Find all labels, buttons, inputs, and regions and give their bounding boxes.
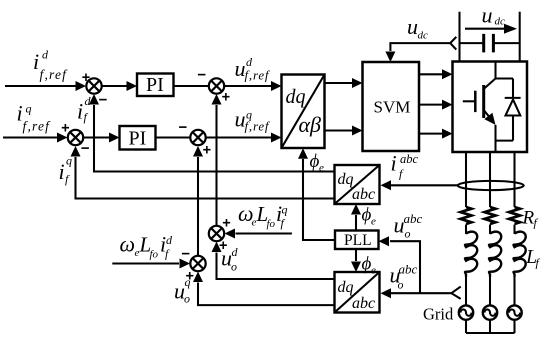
svg-text:f,ref: f,ref [245, 119, 271, 134]
wire SVM to inverter mid [419, 104, 442, 106]
label R_f [522, 208, 539, 230]
svg-text:f: f [281, 216, 286, 230]
label u_dc sense [407, 14, 428, 42]
svg-text:d: d [166, 233, 173, 247]
svg-text:f: f [84, 110, 89, 124]
svg-text:e: e [371, 216, 376, 228]
grid source c [507, 305, 521, 319]
svg-text:−: − [99, 92, 108, 109]
transform block dq/alphabeta [282, 75, 325, 149]
wire S1 to PI1 [102, 85, 127, 87]
label u_f,ref^d [235, 55, 271, 83]
wire S3 to PI2 [84, 136, 110, 138]
svg-text:−: − [197, 67, 206, 84]
label u_f,ref^q [235, 107, 271, 134]
svg-text:q: q [66, 154, 72, 168]
svg-text:i: i [33, 49, 39, 74]
dq/abc block bottom [335, 272, 380, 313]
PLL block [335, 231, 379, 250]
svg-text:f: f [165, 247, 170, 261]
phase wire a lower [465, 277, 467, 306]
phase wire b upper [489, 152, 491, 207]
DC bus left rail [458, 12, 460, 62]
wire i_f,ref^d input [5, 85, 76, 87]
svg-text:SVM: SVM [374, 98, 411, 117]
svg-text:ϕ: ϕ [310, 151, 320, 172]
probe pickoff u_o^abc [451, 287, 460, 299]
label u_dc top with arrow [465, 3, 517, 34]
feedback wire i_f^d [94, 105, 335, 172]
svg-text:−: − [179, 119, 188, 136]
phase wire b lower [489, 277, 491, 306]
freewheel diode D [505, 79, 521, 141]
wire u_o^abc to dq/abc bottom [391, 292, 451, 294]
label u_o^abc lower [390, 262, 418, 292]
svg-text:fo: fo [150, 249, 159, 261]
svg-text:+: + [61, 121, 69, 137]
summing junction S5 [190, 130, 205, 145]
svg-text:ϕ: ϕ [362, 205, 372, 226]
wire S7 to S2 [215, 105, 217, 226]
wire i_f,ref^q input [3, 136, 57, 138]
svg-text:q: q [26, 102, 32, 116]
svg-text:f,ref: f,ref [40, 67, 69, 82]
svg-text:dc: dc [418, 30, 429, 42]
svg-text:q: q [185, 275, 191, 289]
wire u_o^abc branch to PLL [390, 241, 420, 293]
DC bus right rail [519, 12, 521, 62]
inductor Lc [513, 232, 525, 277]
wire PI1 to S2 [174, 85, 209, 87]
grid source a [459, 305, 473, 319]
svg-text:d: d [232, 245, 239, 259]
svg-text:u: u [482, 3, 493, 28]
svg-text:+: + [203, 142, 211, 158]
current sensor ellipse [458, 181, 524, 190]
wire u_dc sense to SVM [390, 43, 450, 51]
wire u_o^q to S6 [198, 283, 335, 306]
svg-text:+: + [82, 70, 90, 86]
wire phi_e PLL to dq/abc top [355, 215, 357, 231]
svg-text:Grid: Grid [423, 305, 454, 324]
grid source b [483, 305, 497, 319]
svg-text:PLL: PLL [344, 232, 372, 249]
label i_f^abc [391, 151, 419, 181]
svg-text:abc: abc [399, 262, 418, 277]
PI controller PI1 [137, 74, 174, 97]
resistor Rc [509, 207, 520, 224]
svg-text:q: q [282, 203, 288, 217]
svg-text:ϕ: ϕ [362, 254, 372, 275]
capacitor C [460, 34, 520, 53]
label i_f^q [59, 154, 73, 187]
phase wire c mid [513, 225, 515, 235]
inverter block [453, 62, 528, 153]
svg-text:+: + [222, 216, 230, 232]
wire phi_e PLL to dq/abc bottom [355, 249, 357, 261]
wire SVM to inverter bottom [419, 133, 442, 135]
svg-text:abc: abc [400, 152, 419, 166]
label u_o^q [174, 275, 191, 306]
inductor Lb [489, 232, 501, 277]
svg-text:i: i [391, 151, 397, 176]
svg-text:ω: ω [120, 232, 136, 257]
PI controller PI2 [120, 126, 156, 150]
svg-text:abc: abc [352, 186, 375, 203]
label omega_e L_fo i_f^d [120, 232, 174, 261]
summing junction S1 [86, 78, 101, 93]
svg-text:f: f [534, 216, 539, 230]
phase wire c upper [513, 152, 515, 207]
svg-text:fo: fo [267, 218, 276, 230]
phase wire c lower [513, 277, 515, 306]
svg-text:abc: abc [352, 295, 375, 312]
phase wire a upper [465, 152, 467, 207]
label L_f [525, 246, 541, 270]
label i_f,ref^q [17, 101, 52, 134]
inductor La [465, 232, 477, 277]
summing junction S6 [190, 256, 205, 271]
summing junction S2 [209, 78, 224, 93]
wire S2 to dq/ab block row1 [225, 85, 272, 87]
svg-text:o: o [231, 260, 237, 274]
svg-text:u: u [407, 14, 418, 39]
svg-text:i: i [77, 99, 83, 124]
wire S5 to dq/ab block row2 [206, 136, 271, 138]
grid neutral bus [466, 320, 515, 333]
svg-text:αβ: αβ [299, 112, 322, 137]
svg-text:d: d [85, 94, 92, 108]
probe pickoff u_dc [450, 37, 456, 50]
svg-text:f,ref: f,ref [23, 119, 52, 134]
svg-text:d: d [42, 48, 49, 62]
label phi_e top [362, 205, 377, 228]
IGBT Q [463, 63, 513, 153]
resistor Rb [485, 207, 496, 224]
wire dq/ab to SVM beta [325, 129, 353, 131]
svg-text:i: i [59, 159, 65, 184]
label phi_e bottom [362, 254, 377, 277]
label i_f^d [77, 94, 92, 124]
wire dq/ab to SVM alpha [325, 82, 353, 84]
svg-text:dq: dq [338, 279, 354, 296]
label u_o^abc upper [394, 211, 423, 241]
label u_o^d [221, 245, 239, 274]
wire omega L i_f^d to S6 [112, 262, 179, 264]
wire phi_e PLL to dq/alphabeta [303, 159, 335, 240]
feedback wire i_f^q [76, 157, 335, 199]
svg-text:f: f [536, 256, 541, 270]
svg-text:PI: PI [146, 74, 164, 96]
svg-text:f,ref: f,ref [245, 68, 271, 83]
summing junction S7 [209, 226, 224, 241]
wire omega L i_f^q to S7 [236, 232, 292, 234]
wire i_f^abc [391, 184, 458, 186]
svg-text:o: o [405, 227, 411, 241]
svg-text:dc: dc [495, 15, 506, 27]
svg-text:+: + [222, 89, 230, 105]
label i_f,ref^d [33, 48, 68, 83]
wire SVM to inverter top [419, 73, 442, 75]
SVM block [363, 62, 420, 151]
label phi_e left [310, 151, 325, 174]
svg-text:o: o [184, 292, 190, 306]
phase wire b mid [489, 225, 491, 235]
wire u_o^d to S7 [217, 253, 335, 280]
svg-text:o: o [398, 278, 404, 292]
label omega_e L_fo i_f^q [238, 201, 288, 230]
resistor Ra [461, 207, 472, 224]
svg-text:abc: abc [404, 211, 423, 226]
dq/abc block top [335, 165, 380, 204]
svg-text:e: e [371, 264, 376, 276]
svg-text:dq: dq [286, 86, 306, 108]
svg-text:−: − [81, 140, 90, 157]
wire S6 to S5 [197, 157, 199, 256]
phase wire a mid [465, 225, 467, 235]
svg-text:f: f [399, 167, 404, 181]
svg-text:PI: PI [129, 128, 147, 150]
wire PI2 to S5 [156, 136, 191, 138]
svg-text:f: f [65, 172, 70, 186]
summing junction S3 [68, 130, 83, 145]
